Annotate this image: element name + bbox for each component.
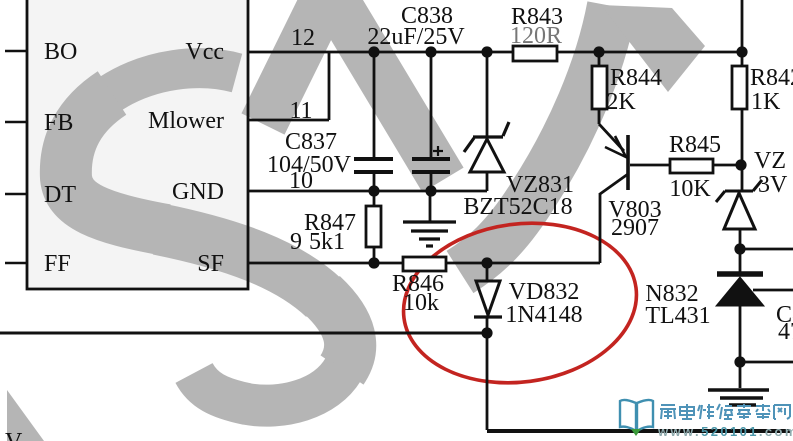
svg-text:BO: BO: [44, 39, 77, 65]
node Vcc-C838: [425, 46, 436, 57]
svg-text:Mlower: Mlower: [148, 108, 224, 134]
resistor R847: [366, 191, 381, 263]
svg-text:Vcc: Vcc: [185, 39, 224, 65]
node GND-C837: [368, 185, 379, 196]
red highlight ellipse: [394, 209, 647, 396]
wire SF row right: [446, 262, 600, 265]
svg-text:FF: FF: [44, 251, 71, 277]
svg-text:10k: 10k: [403, 290, 439, 316]
IC U1 outline: [27, 0, 248, 289]
wire GND row: [248, 190, 487, 193]
logo green tick: [631, 429, 641, 436]
resistor R844: [592, 52, 607, 124]
svg-text:R844: R844: [610, 65, 662, 91]
wire node to right edge: [740, 248, 793, 251]
node SF-VD832: [481, 257, 492, 268]
watermark corner triangle: [7, 390, 44, 441]
wire Mlower: [248, 119, 329, 122]
wire SF row: [248, 262, 403, 265]
wire long bottom net: [0, 332, 487, 335]
node GND-C838: [425, 185, 436, 196]
wire down to TL431: [739, 249, 742, 272]
watermark band right blob: [601, 5, 705, 92]
svg-text:SF: SF: [197, 251, 224, 277]
transistor V803: [599, 124, 670, 263]
pin stub FF: [5, 262, 27, 265]
svg-text:3V: 3V: [758, 172, 788, 198]
ground (middle): [403, 191, 456, 246]
wire Vcc rail: [248, 51, 513, 54]
wire Vcc rail right: [557, 51, 742, 54]
resistor R842: [732, 66, 747, 109]
watermark letter S: [66, 68, 350, 405]
wire Mlower to Vcc: [328, 52, 331, 120]
node Vcc-C837: [368, 46, 379, 57]
diode VD832: [474, 263, 502, 333]
svg-text:1K: 1K: [751, 89, 781, 115]
watermark band right curved leg: [460, 6, 612, 272]
svg-text:120R: 120R: [510, 23, 562, 49]
node TL431-GND: [734, 356, 745, 367]
svg-text:R842: R842: [750, 65, 793, 91]
svg-text:FB: FB: [44, 110, 73, 136]
pin stub BO: [5, 50, 27, 53]
svg-text:GND: GND: [172, 179, 224, 205]
wire TL431 cathode node to right edge: [740, 361, 793, 364]
node Vcc-R842: [736, 46, 747, 57]
wire right rail: [741, 0, 744, 66]
zener VZ832: [716, 180, 762, 249]
svg-text:22uF/25V: 22uF/25V: [367, 24, 465, 50]
logo chinese text: [660, 404, 790, 419]
ground (bottom right): [708, 390, 769, 405]
svg-text:12: 12: [291, 25, 315, 51]
svg-text:47u: 47u: [778, 319, 793, 345]
svg-text:95k1: 95k1: [290, 229, 345, 255]
svg-text:www.520101.com: www.520101.com: [657, 424, 793, 439]
svg-text:TL431: TL431: [645, 303, 710, 329]
node R845-VZ832: [735, 159, 746, 170]
node VZ832-TL431: [734, 243, 745, 254]
wire VD832 down: [486, 333, 489, 430]
capacitor C837: [354, 52, 393, 191]
zener VZ831: [464, 52, 509, 191]
svg-text:11: 11: [289, 98, 312, 124]
pin stub DT: [5, 193, 27, 196]
node Vcc-R844: [593, 46, 604, 57]
svg-text:R845: R845: [669, 132, 721, 158]
capacitor C838: [412, 52, 450, 191]
svg-text:DT: DT: [44, 182, 76, 208]
wire bottom run: [487, 429, 790, 433]
pin stub FB: [5, 121, 27, 124]
IC U1 body fill: [27, 0, 248, 289]
node VD832-bottom: [481, 327, 492, 338]
svg-text:10K: 10K: [669, 176, 711, 202]
resistor R845: [670, 159, 713, 173]
watermark band left caret: [263, 0, 443, 180]
svg-text:2907: 2907: [611, 215, 659, 241]
node SF-R847: [368, 257, 379, 268]
node Vcc-VZ831: [481, 46, 492, 57]
resistor R843: [513, 46, 557, 61]
svg-text:BZT52C18: BZT52C18: [463, 194, 572, 220]
resistor R846: [403, 257, 446, 271]
svg-text:VZ: VZ: [754, 148, 786, 174]
svg-text:104/50V: 104/50V: [267, 152, 352, 178]
logo book icon: [620, 400, 653, 431]
shunt regulator N832 TL431: [716, 274, 793, 388]
svg-text:1N4148: 1N4148: [505, 302, 582, 328]
svg-text:V: V: [5, 429, 23, 441]
svg-text:2K: 2K: [606, 89, 636, 115]
